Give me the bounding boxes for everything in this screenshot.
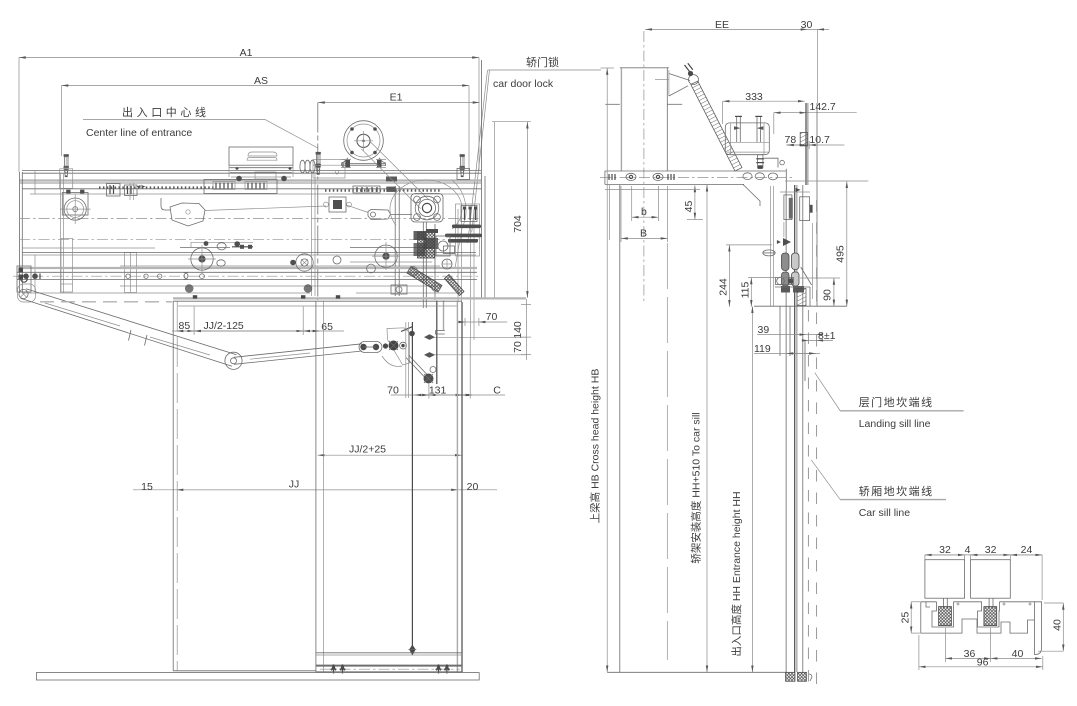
hanger rail side xyxy=(800,103,817,306)
door panel edge-on xyxy=(786,185,803,672)
dimension 40 (right) xyxy=(1038,603,1063,651)
dimension 119 xyxy=(754,343,820,355)
sill profile xyxy=(921,602,1042,655)
svg-text:704: 704 xyxy=(512,215,524,233)
spring coil xyxy=(300,160,315,173)
dimension A1 xyxy=(19,47,479,172)
svg-text:AS: AS xyxy=(254,75,268,87)
guide shoe 1 (hatched) xyxy=(939,607,952,626)
svg-text:333: 333 xyxy=(745,91,763,103)
dimension 115 xyxy=(740,278,789,307)
svg-text:B: B xyxy=(640,227,647,239)
belt tensioner xyxy=(368,210,412,220)
svg-text:36: 36 xyxy=(964,648,976,660)
svg-text:JJ/2+25: JJ/2+25 xyxy=(349,444,386,456)
svg-text:140: 140 xyxy=(512,321,524,339)
drive flange unit xyxy=(411,194,443,223)
svg-text:244: 244 xyxy=(718,278,730,296)
svg-text:b: b xyxy=(641,206,647,218)
belt from motor to drive flange xyxy=(362,142,430,209)
guide shoes side xyxy=(763,188,813,299)
dimension 78 and 10.7 xyxy=(785,134,845,149)
dimension 70 (hanger offset) xyxy=(458,311,507,326)
svg-text:70: 70 xyxy=(512,341,524,353)
frame right edge xyxy=(458,60,485,340)
cross head beam xyxy=(605,68,682,171)
lower rail band xyxy=(13,254,481,293)
centerline of entrance (dash-dot) xyxy=(317,103,319,301)
svg-text:E1: E1 xyxy=(390,92,403,104)
dimension EE xyxy=(645,19,807,31)
dimension JJ/2+25 xyxy=(318,444,462,456)
svg-text:96: 96 xyxy=(977,656,989,668)
svg-text:90: 90 xyxy=(822,289,834,301)
dimension b xyxy=(632,186,659,221)
belt clamp left xyxy=(107,184,138,197)
svg-text:495: 495 xyxy=(835,245,847,263)
vertical dimension HB xyxy=(589,68,615,672)
bell crank and link to rod xyxy=(382,322,436,398)
belt clamp column xyxy=(391,186,407,296)
inner stiffener verticals xyxy=(61,172,316,296)
sill lines dashed xyxy=(805,200,817,688)
dimension 32 4 32 24 xyxy=(925,544,1042,600)
floor line xyxy=(36,673,479,680)
svg-text:JJ/2-125: JJ/2-125 xyxy=(204,320,244,332)
dimension E1 xyxy=(318,92,480,104)
left pulley xyxy=(60,190,91,224)
label car door lock xyxy=(468,55,601,243)
dimension 30 xyxy=(801,19,829,103)
svg-text:轿架安装高度 HH+510 To car sill: 轿架安装高度 HH+510 To car sill xyxy=(690,412,703,563)
belt clamp with teeth xyxy=(353,186,396,193)
svg-text:C: C xyxy=(493,385,501,397)
svg-text:85: 85 xyxy=(179,320,191,332)
hook bracket xyxy=(764,158,784,167)
safety edge arm 2 xyxy=(234,342,388,365)
cam plate xyxy=(170,203,205,226)
dimension 36 and 40 (bottom) xyxy=(945,628,1041,662)
motor mount plate xyxy=(313,160,397,182)
svg-text:Car sill line: Car sill line xyxy=(859,507,911,519)
svg-text:轿门锁: 轿门锁 xyxy=(526,55,559,69)
dimension 140 and 70 (right stack) xyxy=(430,299,532,360)
car upright lines xyxy=(610,185,668,672)
section door panel 2 xyxy=(971,560,1011,608)
svg-text:20: 20 xyxy=(467,481,479,493)
svg-text:EE: EE xyxy=(715,19,729,31)
dimension 333 xyxy=(723,91,805,124)
motor side view xyxy=(725,116,769,154)
hanger plate verticals xyxy=(435,301,444,385)
phantom line of panel top xyxy=(40,301,172,303)
svg-text:car door lock: car door lock xyxy=(493,78,554,90)
dimension 85 JJ/2-125 65 xyxy=(172,307,344,336)
dimension 8±1 xyxy=(802,330,836,342)
tie rod cam to flange xyxy=(205,206,326,211)
stud bolts on rail xyxy=(60,152,465,188)
vertical dimension HH+510 xyxy=(690,185,708,673)
svg-text:119: 119 xyxy=(754,343,771,355)
svg-text:10.7: 10.7 xyxy=(809,134,830,146)
sill step outline xyxy=(754,287,847,356)
svg-text:32: 32 xyxy=(985,544,997,556)
right door panel xyxy=(316,301,462,674)
cable loop xyxy=(390,180,462,229)
svg-text:JJ: JJ xyxy=(289,479,300,491)
controller box xyxy=(229,147,293,181)
svg-text:4: 4 xyxy=(965,544,971,556)
cam hook pipe xyxy=(161,198,170,210)
svg-text:24: 24 xyxy=(1021,544,1033,556)
dimension 704 xyxy=(492,122,531,298)
sill blocks bottom xyxy=(786,672,813,681)
guide shoe 2 (hatched) xyxy=(984,607,997,626)
vertical dimension HH xyxy=(730,306,752,672)
dimension AS xyxy=(62,75,470,170)
dimension 45 xyxy=(683,186,703,220)
door lock mechanism cluster xyxy=(414,122,495,308)
svg-text:A1: A1 xyxy=(240,47,253,59)
lift rod xyxy=(409,322,417,656)
mounting band xyxy=(600,169,792,206)
svg-text:30: 30 xyxy=(801,19,813,31)
beam centerline xyxy=(643,31,645,302)
left bracket xyxy=(17,266,31,292)
belt teeth xyxy=(99,186,216,188)
label car sill line xyxy=(811,460,946,519)
svg-text:70: 70 xyxy=(387,385,399,397)
svg-text:142.7: 142.7 xyxy=(810,101,836,113)
frame left edge xyxy=(20,171,35,293)
small flange xyxy=(324,197,352,212)
svg-text:39: 39 xyxy=(758,324,770,336)
svg-text:层门地坎端线: 层门地坎端线 xyxy=(859,395,934,409)
svg-text:出入口中心线: 出入口中心线 xyxy=(122,105,210,119)
left door panel xyxy=(173,301,316,671)
side view floor line xyxy=(607,671,786,673)
svg-text:78: 78 xyxy=(785,134,797,146)
dimension 90 xyxy=(800,278,840,306)
svg-text:40: 40 xyxy=(1051,619,1063,631)
hatched coupler vane xyxy=(691,81,742,171)
label landing sill line xyxy=(815,373,964,430)
svg-text:15: 15 xyxy=(141,481,153,493)
dimension 495 xyxy=(785,181,868,306)
dimension 25 xyxy=(899,602,920,633)
lower beam xyxy=(22,253,476,267)
door hanger rollers xyxy=(180,241,432,273)
horizontal centerlines of body xyxy=(19,218,481,220)
operator frame top rail xyxy=(20,171,481,194)
dimension 244 xyxy=(718,245,773,307)
svg-text:115: 115 xyxy=(740,281,752,298)
svg-text:Landing sill line: Landing sill line xyxy=(859,418,931,430)
motor shaft xyxy=(756,155,764,169)
rope hitch xyxy=(669,63,699,96)
svg-text:上梁高 HB Cross head height HB: 上梁高 HB Cross head height HB xyxy=(589,369,602,524)
svg-text:轿厢地坎端线: 轿厢地坎端线 xyxy=(859,484,934,498)
svg-text:Center line of entrance: Center line of entrance xyxy=(86,127,192,139)
dimension 70 131 C xyxy=(387,340,505,399)
dimension 96 xyxy=(919,635,1043,670)
svg-text:出入口高度 HH Entrance height HH: 出入口高度 HH Entrance height HH xyxy=(730,491,743,656)
safety edge arm 1 xyxy=(18,268,243,370)
svg-text:25: 25 xyxy=(899,612,911,624)
dimension B xyxy=(621,186,668,242)
svg-text:8±1: 8±1 xyxy=(818,330,836,342)
side lock cluster xyxy=(605,186,813,306)
panel top thick line xyxy=(173,295,526,306)
hatched link bar xyxy=(407,267,464,296)
dimension 142.7 xyxy=(774,101,857,134)
label center line of entrance xyxy=(83,105,318,148)
svg-text:32: 32 xyxy=(939,544,951,556)
belt tension arrow xyxy=(137,185,146,189)
svg-text:131: 131 xyxy=(429,385,447,397)
belt clamp carriage xyxy=(204,172,277,194)
guide channel bracket xyxy=(61,239,73,293)
svg-text:70: 70 xyxy=(486,311,498,323)
dimension 39 xyxy=(757,324,822,336)
motor with pulley xyxy=(341,121,386,168)
svg-text:45: 45 xyxy=(683,201,695,213)
section door panel 1 xyxy=(925,560,965,608)
svg-text:40: 40 xyxy=(1012,648,1024,660)
dimension 15 JJ 20 xyxy=(133,479,497,494)
left hanger row line xyxy=(22,247,155,249)
